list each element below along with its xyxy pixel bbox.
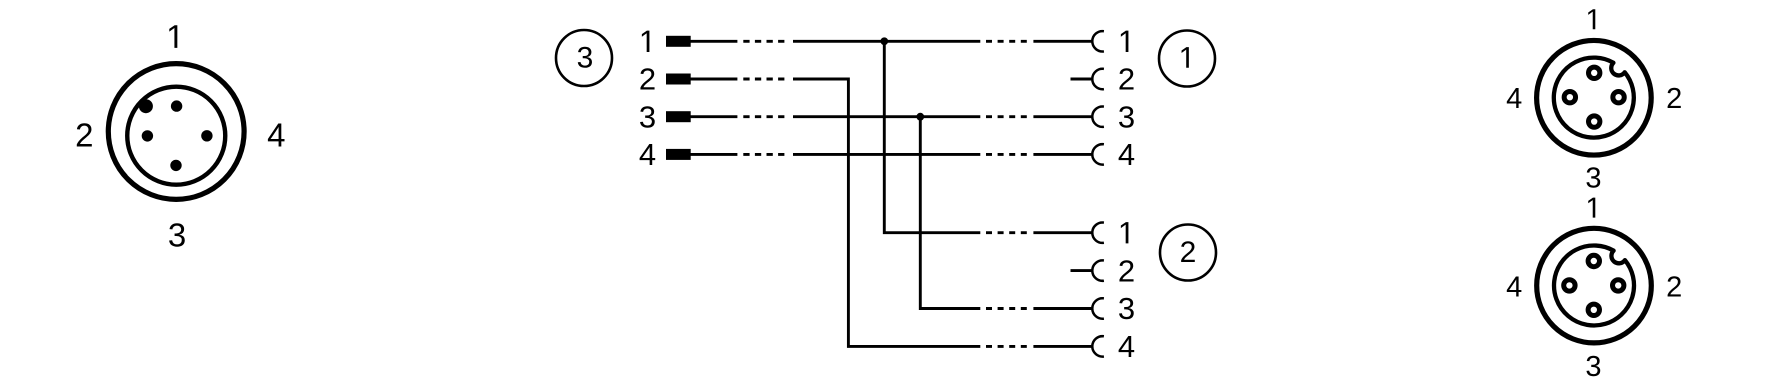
label contact 1 out1 bbox=[1121, 31, 1129, 52]
svg-text:2: 2 bbox=[1118, 253, 1135, 288]
wire out2 pin3 dashed bbox=[986, 307, 1028, 310]
ferrule wire end 4 bbox=[666, 149, 691, 160]
outer shell circle bbox=[1537, 228, 1652, 343]
connector face view right top (female, port 1) bbox=[1537, 40, 1652, 155]
socket hole 2 bbox=[1613, 92, 1624, 103]
pin 2 dot bbox=[142, 130, 153, 141]
contact socket out1 pin2 bbox=[1092, 69, 1104, 89]
wire 2 solid left bbox=[690, 78, 737, 81]
socket hole 4 bbox=[1564, 92, 1575, 103]
socket hole 3 bbox=[1588, 304, 1599, 315]
wire 3 dashed left bbox=[743, 115, 785, 118]
wire 1 dashed left bbox=[743, 40, 785, 43]
ferrule wire end 3 bbox=[666, 111, 691, 122]
svg-text:4: 4 bbox=[267, 116, 285, 153]
wire 4 solid mid bbox=[793, 153, 980, 156]
wire 4 solid to contact bbox=[1033, 153, 1092, 156]
wire out2 pin4 dashed bbox=[986, 345, 1028, 348]
svg-text:3: 3 bbox=[1585, 163, 1601, 195]
wire branch node1 drop to out2 pin1 bbox=[884, 41, 980, 232]
port badge 3 bbox=[556, 30, 612, 86]
wire out2 pin1 dashed bbox=[986, 231, 1028, 234]
svg-text:2: 2 bbox=[639, 62, 656, 97]
svg-text:4: 4 bbox=[1118, 137, 1135, 172]
svg-text:3: 3 bbox=[1118, 99, 1135, 134]
inner insert circle bbox=[127, 87, 225, 185]
label contact 1 out2 bbox=[1121, 222, 1129, 243]
socket hole 2 bbox=[1613, 280, 1624, 291]
svg-text:4: 4 bbox=[1118, 329, 1135, 364]
outer shell circle bbox=[108, 64, 244, 200]
svg-text:2: 2 bbox=[1666, 83, 1682, 115]
junction node row1 bbox=[880, 37, 888, 45]
port badge 1 bbox=[1159, 31, 1215, 87]
wire 1 dashed right bbox=[986, 40, 1028, 43]
svg-text:4: 4 bbox=[1506, 272, 1522, 304]
contact socket out1 pin3 bbox=[1092, 106, 1104, 126]
wire 1 solid mid to right dash bbox=[793, 40, 980, 43]
inner insert ring with keyway notch bbox=[1554, 246, 1634, 326]
wire out2 pin4 solid to contact bbox=[1033, 345, 1092, 348]
svg-text:2: 2 bbox=[1180, 236, 1197, 269]
wire 1 solid to contact bbox=[1033, 40, 1092, 43]
socket hole 3 bbox=[1589, 116, 1600, 127]
svg-text:3: 3 bbox=[639, 99, 656, 134]
stub out2 pin2 bbox=[1071, 269, 1093, 272]
contact socket out1 pin1 bbox=[1092, 31, 1104, 51]
wire 4 dashed left bbox=[743, 153, 785, 156]
socket hole 4 bbox=[1564, 280, 1575, 291]
wire 1 solid left bbox=[690, 40, 737, 43]
wire 3 dashed right bbox=[986, 115, 1028, 118]
wire branch node3 drop to out2 pin3 bbox=[920, 117, 980, 309]
wire out2 pin1 solid to contact bbox=[1033, 231, 1092, 234]
svg-text:3: 3 bbox=[1118, 291, 1135, 326]
wire out2 pin3 solid to contact bbox=[1033, 307, 1092, 310]
wire 3 solid mid bbox=[793, 115, 980, 118]
wire 2 solid to corner and drop to out2 pin4 bbox=[793, 79, 980, 346]
label wire 1 input bbox=[642, 31, 650, 52]
wire 3 solid left bbox=[690, 115, 737, 118]
svg-text:4: 4 bbox=[639, 137, 656, 172]
svg-text:3: 3 bbox=[1585, 351, 1601, 383]
svg-text:4: 4 bbox=[1506, 83, 1522, 115]
port badge 2 bbox=[1160, 225, 1216, 281]
svg-text:3: 3 bbox=[577, 41, 594, 74]
contact socket out2 pin4 bbox=[1092, 336, 1104, 356]
contact socket out2 pin2 bbox=[1092, 260, 1104, 280]
svg-text:2: 2 bbox=[75, 116, 93, 153]
keyway dot bbox=[139, 99, 153, 113]
wire 3 solid to contact bbox=[1033, 115, 1092, 118]
junction node row3 bbox=[916, 113, 924, 121]
svg-text:2: 2 bbox=[1666, 272, 1682, 304]
pin 3 dot bbox=[170, 160, 181, 171]
label pin 1 right top bbox=[1588, 9, 1595, 29]
svg-text:3: 3 bbox=[168, 216, 186, 253]
wire 4 dashed right bbox=[986, 153, 1028, 156]
contact socket out2 pin3 bbox=[1092, 298, 1104, 318]
pin 4 dot bbox=[201, 130, 212, 141]
contact socket out2 pin1 bbox=[1092, 223, 1104, 243]
ferrule wire end 1 bbox=[666, 36, 691, 47]
connector face view right bottom (female, port 2) bbox=[1537, 228, 1652, 343]
outer shell circle bbox=[1537, 40, 1652, 155]
connector face view left (male, port 3) bbox=[108, 64, 244, 200]
inner insert ring with keyway notch bbox=[1554, 58, 1634, 138]
pin 1 dot bbox=[171, 100, 182, 111]
svg-text:2: 2 bbox=[1118, 62, 1135, 97]
label pin 1 left view bbox=[169, 25, 177, 48]
label badge 1 bbox=[1182, 47, 1189, 68]
socket hole 1 bbox=[1589, 67, 1600, 78]
wire 2 dashed left bbox=[743, 78, 785, 81]
stub out1 pin2 bbox=[1071, 78, 1093, 81]
wire 4 solid left bbox=[690, 153, 737, 156]
socket hole 1 bbox=[1588, 255, 1599, 266]
ferrule wire end 2 bbox=[666, 74, 691, 85]
label pin 1 right bottom bbox=[1588, 198, 1595, 218]
contact socket out1 pin4 bbox=[1092, 144, 1104, 164]
